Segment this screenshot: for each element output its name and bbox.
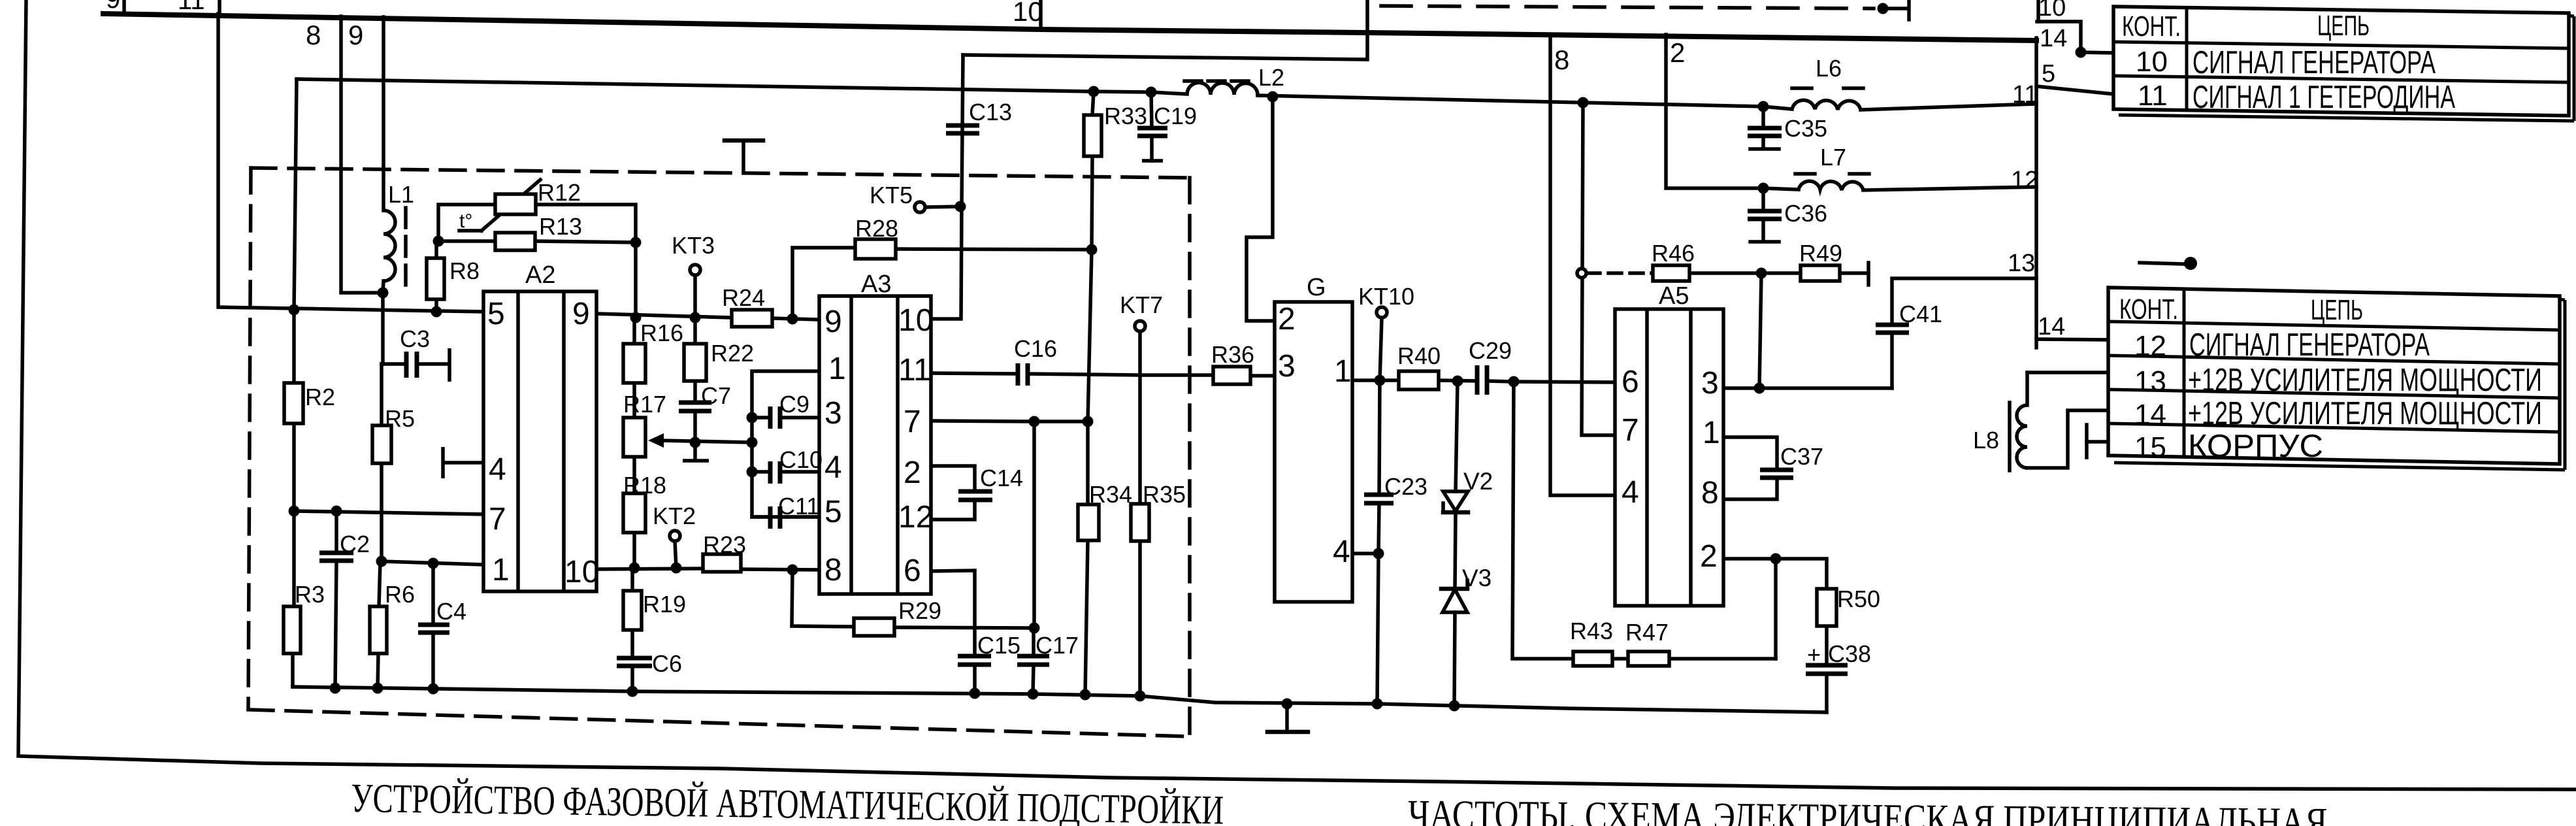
svg-text:10: 10 <box>564 555 599 589</box>
svg-text:6: 6 <box>904 553 921 588</box>
svg-text:R24: R24 <box>722 284 765 311</box>
svg-text:8: 8 <box>1701 476 1719 510</box>
svg-text:L1: L1 <box>388 181 414 208</box>
svg-text:9: 9 <box>824 305 842 339</box>
svg-text:14: 14 <box>2134 399 2166 431</box>
svg-text:KT5: KT5 <box>870 182 913 208</box>
svg-text:7: 7 <box>904 405 921 439</box>
svg-text:СИГНАЛ 1 ГЕТЕРОДИНА: СИГНАЛ 1 ГЕТЕРОДИНА <box>2193 80 2455 115</box>
svg-text:11: 11 <box>178 0 205 15</box>
svg-text:C23: C23 <box>1384 473 1427 500</box>
svg-text:11: 11 <box>898 353 931 388</box>
svg-text:R18: R18 <box>623 472 666 499</box>
svg-text:14: 14 <box>2038 313 2065 340</box>
svg-text:KT3: KT3 <box>672 232 715 259</box>
svg-text:КОРПУС: КОРПУС <box>2188 429 2323 464</box>
svg-text:C35: C35 <box>1784 115 1827 142</box>
svg-text:8: 8 <box>306 20 321 50</box>
svg-text:C36: C36 <box>1784 200 1827 227</box>
svg-text:V2: V2 <box>1463 468 1493 495</box>
svg-text:L2: L2 <box>1258 64 1284 91</box>
svg-text:ЦЕПЬ: ЦЕПЬ <box>2311 294 2363 326</box>
svg-text:11: 11 <box>2138 80 2168 112</box>
svg-text:R13: R13 <box>539 213 582 240</box>
svg-text:C11: C11 <box>778 493 819 520</box>
svg-text:КОНТ.: КОНТ. <box>2122 10 2181 42</box>
svg-text:14: 14 <box>2040 25 2067 52</box>
svg-text:13: 13 <box>2134 365 2166 397</box>
svg-text:V3: V3 <box>1462 565 1492 591</box>
svg-text:R40: R40 <box>1397 342 1441 369</box>
svg-text:C37: C37 <box>1780 443 1823 470</box>
svg-text:C17: C17 <box>1035 632 1079 659</box>
svg-text:C41: C41 <box>1899 301 1942 327</box>
svg-text:C13: C13 <box>969 99 1012 125</box>
svg-text:C29: C29 <box>1469 337 1512 364</box>
svg-text:R6: R6 <box>385 581 415 608</box>
svg-text:7: 7 <box>1622 413 1639 448</box>
svg-text:R28: R28 <box>855 215 898 242</box>
svg-text:7: 7 <box>489 502 506 537</box>
svg-text:R8: R8 <box>449 257 480 284</box>
svg-text:СИГНАЛ ГЕНЕРАТОРА: СИГНАЛ ГЕНЕРАТОРА <box>2189 327 2430 363</box>
svg-text:2: 2 <box>904 455 921 490</box>
svg-text:L8: L8 <box>1973 427 1999 454</box>
svg-text:C3: C3 <box>400 325 430 352</box>
svg-text:+12В УСИЛИТЕЛЯ МОЩНОСТИ: +12В УСИЛИТЕЛЯ МОЩНОСТИ <box>2188 396 2542 431</box>
svg-text:10: 10 <box>2136 46 2168 78</box>
svg-text:R35: R35 <box>1143 481 1186 508</box>
svg-text:9: 9 <box>106 0 120 14</box>
svg-text:9: 9 <box>348 20 363 50</box>
svg-text:12: 12 <box>898 500 933 535</box>
svg-text:R16: R16 <box>640 320 683 346</box>
svg-text:5: 5 <box>487 297 505 331</box>
svg-text:4: 4 <box>1333 535 1350 569</box>
svg-text:L7: L7 <box>1820 144 1846 171</box>
svg-text:КОНТ.: КОНТ. <box>2119 293 2178 325</box>
svg-text:6: 6 <box>1622 365 1639 399</box>
svg-text:СИГНАЛ ГЕНЕРАТОРА: СИГНАЛ ГЕНЕРАТОРА <box>2193 45 2436 80</box>
svg-text:4: 4 <box>1622 475 1639 510</box>
svg-text:ЦЕПЬ: ЦЕПЬ <box>2317 10 2370 42</box>
svg-text:11: 11 <box>2012 81 2038 108</box>
svg-text:C15: C15 <box>977 632 1020 659</box>
svg-text:C38: C38 <box>1828 640 1871 667</box>
svg-text:9: 9 <box>572 297 590 331</box>
svg-text:R2: R2 <box>305 384 335 410</box>
svg-text:1: 1 <box>1334 354 1352 389</box>
svg-text:A2: A2 <box>525 261 555 289</box>
svg-text:C16: C16 <box>1014 335 1057 362</box>
svg-text:R34: R34 <box>1089 481 1132 508</box>
svg-text:4: 4 <box>824 450 842 485</box>
svg-text:2: 2 <box>1278 302 1296 337</box>
svg-text:R36: R36 <box>1211 341 1254 368</box>
svg-text:1: 1 <box>492 553 510 587</box>
svg-text:+: + <box>1807 641 1821 668</box>
svg-text:t°: t° <box>459 210 472 232</box>
svg-text:R29: R29 <box>898 597 941 624</box>
svg-text:1: 1 <box>828 352 846 386</box>
svg-text:C4: C4 <box>436 598 466 625</box>
svg-text:C14: C14 <box>980 465 1023 491</box>
svg-text:R23: R23 <box>703 531 746 558</box>
svg-text:R12: R12 <box>538 179 581 206</box>
svg-text:C10: C10 <box>779 446 823 473</box>
svg-text:2: 2 <box>1700 539 1718 574</box>
svg-text:L6: L6 <box>1816 55 1842 82</box>
svg-text:5: 5 <box>2042 60 2055 88</box>
svg-text:R46: R46 <box>1652 240 1695 267</box>
svg-text:R17: R17 <box>623 391 666 418</box>
svg-text:10: 10 <box>898 303 933 338</box>
svg-text:R50: R50 <box>1837 586 1880 612</box>
svg-text:10: 10 <box>1013 0 1043 27</box>
svg-text:R5: R5 <box>385 405 415 432</box>
svg-text:12: 12 <box>2134 330 2166 362</box>
svg-text:R22: R22 <box>711 340 754 367</box>
svg-text:C6: C6 <box>652 650 682 677</box>
svg-text:A3: A3 <box>861 271 891 298</box>
svg-text:C9: C9 <box>779 391 809 418</box>
svg-text:A5: A5 <box>1659 282 1689 310</box>
svg-text:12: 12 <box>2011 167 2038 194</box>
svg-text:KT2: KT2 <box>653 503 696 529</box>
svg-text:4: 4 <box>489 452 506 487</box>
svg-text:5: 5 <box>824 495 842 529</box>
svg-text:10: 10 <box>2038 0 2066 22</box>
svg-text:8: 8 <box>824 553 842 587</box>
svg-text:R49: R49 <box>1799 240 1842 267</box>
svg-text:C19: C19 <box>1154 103 1197 129</box>
svg-text:R3: R3 <box>295 581 325 608</box>
svg-text:R47: R47 <box>1625 619 1669 646</box>
svg-text:G: G <box>1307 274 1326 301</box>
svg-text:C2: C2 <box>340 531 370 557</box>
svg-text:1: 1 <box>1703 416 1720 450</box>
svg-text:13: 13 <box>2008 250 2035 277</box>
svg-text:15: 15 <box>2134 431 2166 463</box>
svg-text:KT7: KT7 <box>1120 291 1163 318</box>
svg-text:C7: C7 <box>701 382 731 409</box>
svg-text:8: 8 <box>1554 44 1569 75</box>
svg-text:+12В УСИЛИТЕЛЯ МОЩНОСТИ: +12В УСИЛИТЕЛЯ МОЩНОСТИ <box>2188 363 2542 398</box>
svg-text:KT10: KT10 <box>1358 283 1414 310</box>
svg-text:3: 3 <box>1278 349 1296 384</box>
svg-text:R43: R43 <box>1570 618 1613 644</box>
svg-text:3: 3 <box>1701 366 1719 401</box>
svg-text:R19: R19 <box>643 591 686 618</box>
svg-text:R33: R33 <box>1104 103 1147 129</box>
svg-text:2: 2 <box>1670 37 1685 68</box>
svg-text:3: 3 <box>824 396 842 431</box>
